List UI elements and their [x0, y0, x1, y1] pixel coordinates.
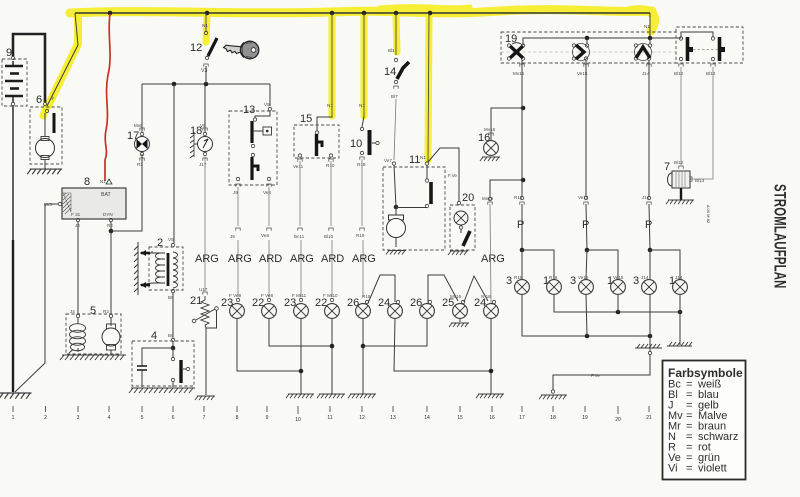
svg-text:Bl10: Bl10	[324, 234, 334, 239]
svg-text:F Mr10: F Mr10	[323, 293, 338, 298]
node: bus junction x=396	[394, 11, 399, 16]
battery 9	[2, 47, 27, 106]
svg-text:Mv16: Mv16	[482, 196, 494, 201]
tail lamp 22b	[315, 293, 339, 318]
svg-text:BAT: BAT	[101, 192, 112, 198]
wire: rail right end down to headlamp switch 13	[269, 84, 271, 106]
ground: 3-lamps	[635, 344, 662, 348]
svg-text:V5: V5	[168, 237, 174, 242]
svg-text:A 05 M 82: A 05 M 82	[706, 205, 711, 224]
svg-text:1: 1	[12, 415, 15, 421]
headlamp 24a	[378, 297, 402, 318]
svg-text:18: 18	[550, 415, 556, 421]
ground: bar under 4	[129, 388, 195, 393]
svg-text:ARG: ARG	[481, 253, 505, 265]
svg-text:N1: N1	[644, 24, 650, 29]
ground: under 20	[448, 251, 468, 255]
node: bus junction x=430	[428, 11, 433, 16]
wire: Mv16 branch from Mv15 wire down to 24b	[490, 180, 523, 197]
node: bus junction x=364	[362, 11, 367, 16]
node: Mv15 split	[520, 248, 525, 253]
svg-text:16: 16	[489, 415, 495, 421]
svg-text:6: 6	[172, 415, 175, 421]
starter motor 6	[30, 94, 62, 169]
ground: under 16	[480, 157, 500, 161]
node: 23 ground junction	[299, 369, 304, 374]
flasher relay 7	[664, 160, 705, 200]
svg-text:R18: R18	[356, 233, 365, 238]
ground: horn 11	[386, 251, 406, 255]
svg-text:Ve11: Ve11	[293, 164, 304, 169]
wire: N1 drop to ignition switch 12	[205, 13, 207, 32]
node: Ve15 split	[585, 248, 590, 253]
svg-text:3: 3	[506, 275, 512, 287]
svg-text:J9: J9	[233, 190, 238, 195]
svg-text:J14: J14	[642, 195, 650, 200]
ground: F.Ve	[539, 395, 567, 399]
wire: 25 bottom to own ground	[459, 319, 461, 323]
node: rail junction x=174	[172, 82, 177, 87]
wire: J14 down to lamp 3-J14	[649, 250, 651, 279]
wire: branch to lamp 1-J14	[650, 250, 680, 279]
indicator lamp 3 Ve15	[570, 275, 593, 294]
wire: V5 feed for 18 from rail	[204, 84, 206, 132]
svg-text:Bl12: Bl12	[674, 71, 684, 76]
svg-text:STROMLAUFPLAN: STROMLAUFPLAN	[771, 184, 790, 289]
wire: N1 drop to horn 11	[428, 13, 429, 162]
svg-text:Bl7: Bl7	[391, 94, 398, 99]
svg-text:17: 17	[519, 415, 525, 421]
svg-text:Bl13: Bl13	[706, 71, 716, 76]
svg-text:21: 21	[646, 415, 652, 421]
svg-text:21: 21	[190, 295, 202, 307]
wire: main bus N1	[75, 12, 650, 14]
svg-text:Mv16: Mv16	[484, 127, 496, 132]
ignition coil 2	[134, 237, 183, 300]
indicator lamp 1 Ve15	[607, 275, 625, 294]
flasher switch contact J14	[634, 44, 651, 77]
svg-text:J9: J9	[230, 234, 235, 239]
wire: R2 branch to charge lamp 17	[111, 154, 142, 231]
indicator lamp 1 J14	[669, 275, 687, 294]
svg-text:9: 9	[266, 415, 269, 421]
ground: 1-lamps	[667, 342, 692, 346]
horn button 10	[350, 103, 379, 167]
svg-text:U17: U17	[199, 287, 208, 292]
node: rail junction x=206	[204, 82, 209, 87]
wire: bus right end into flasher unit 19	[649, 13, 651, 38]
svg-text:Mv15: Mv15	[513, 71, 525, 76]
svg-text:P: P	[645, 219, 652, 231]
svg-text:3: 3	[570, 275, 576, 287]
wire: Mv15 down to lamp 3-R16	[521, 250, 523, 279]
svg-text:12: 12	[190, 42, 202, 54]
wire: Mv5 feed for lamp 17 from rail	[141, 84, 143, 132]
ground: battery negative	[0, 393, 32, 399]
wire: N1 drop to horn button 10	[363, 13, 365, 116]
svg-text:2: 2	[44, 415, 47, 421]
node: bus junction x=332	[330, 11, 335, 16]
svg-text:N1: N1	[420, 155, 426, 160]
svg-text:4: 4	[108, 415, 111, 421]
svg-text:R16: R16	[514, 195, 523, 200]
svg-text:Bl13: Bl13	[695, 178, 705, 183]
ground: under 21	[195, 396, 215, 400]
svg-text:ARG: ARG	[352, 253, 376, 265]
svg-text:14: 14	[384, 66, 396, 78]
svg-text:13: 13	[243, 104, 255, 116]
svg-text:R18: R18	[357, 162, 366, 167]
wire: Mv15 output down the page	[521, 60, 523, 196]
svg-text:P: P	[517, 219, 524, 231]
svg-text:Ve8: Ve8	[263, 190, 271, 195]
wire: V3 from switch 12 to rail	[205, 66, 207, 84]
wire: J4 regulator to generator field 5	[77, 222, 79, 314]
wire: 1-lamps common return	[554, 295, 680, 313]
indicator lamp 3 R16	[506, 275, 529, 294]
svg-text:F.Ve: F.Ve	[448, 173, 457, 178]
wire: 22b bottom to ground	[331, 319, 333, 395]
ground: starter 6	[27, 169, 62, 174]
wire: Mr3 lead from regulator to ground	[15, 204, 58, 392]
svg-text:13: 13	[390, 415, 396, 421]
wire: Bl12 down to flasher relay 7	[680, 67, 682, 165]
svg-text:ARD: ARD	[259, 253, 282, 265]
wire: red lead from bus to regulator BAT terminal	[105, 14, 110, 181]
svg-text:Bc11: Bc11	[294, 234, 305, 239]
svg-text:10: 10	[350, 138, 362, 150]
svg-text:ARG: ARG	[195, 253, 219, 265]
node: 24 ground junction	[489, 369, 494, 374]
wire: lamp 16 feed from Mv15 wire	[491, 108, 523, 140]
front lamp 26b	[410, 297, 434, 318]
headlamp 24b	[474, 294, 498, 318]
svg-text:F Mr11: F Mr11	[292, 293, 307, 298]
turn signal flasher unit 19	[501, 27, 743, 63]
svg-text:Mv16: Mv16	[450, 294, 462, 299]
wire: bridge 25 top to 24b top	[464, 276, 488, 302]
svg-text:4: 4	[151, 330, 157, 342]
ground: lamp 26a	[348, 394, 376, 398]
svg-text:ARG: ARG	[228, 253, 252, 265]
connector: Ve8	[267, 228, 271, 231]
pilot lamp 16	[478, 127, 498, 155]
yellow highlighter over main supply bus N1	[43, 7, 655, 160]
parking light switch 20	[450, 192, 475, 250]
wire: Bl1 drop to dip switch 14	[395, 13, 397, 55]
wire: V5 rail down to ignition coil 2	[173, 84, 175, 243]
wire: bridge 26b top to 25 top	[428, 275, 458, 303]
wire: R10/Bl10 from 15 to lamp row	[330, 161, 332, 226]
ground: long bar under 5	[60, 355, 126, 360]
wire: 26a bottom to ground and to 26b	[362, 319, 364, 395]
terminal number strip	[13, 406, 649, 414]
node: junction on Mv15 wire	[521, 106, 526, 111]
wire: battery positive thick lead to starter 6	[13, 34, 45, 102]
wire: Ve8 from 13 to lamp row	[268, 187, 270, 226]
svg-text:V5: V5	[264, 102, 270, 107]
wire: Bl13 down and left to relay 7	[690, 67, 713, 179]
ground: lamp 25	[449, 323, 469, 327]
wire: Ve15 down to lamp 3-Ve15	[586, 250, 587, 279]
svg-text:11: 11	[409, 154, 420, 166]
lighting switch 13	[229, 102, 277, 195]
svg-text:Vi: Vi	[668, 463, 678, 475]
svg-text:N1: N1	[202, 23, 208, 28]
svg-text:P: P	[582, 219, 589, 231]
svg-text:8: 8	[84, 176, 90, 188]
svg-text:R2: R2	[137, 162, 143, 167]
svg-text:Bl1: Bl1	[388, 48, 395, 53]
svg-text:F Ve8: F Ve8	[261, 293, 273, 298]
tail lamp 23b	[284, 293, 308, 318]
svg-text:DYN: DYN	[103, 212, 113, 217]
wire: 22a bottom to shared ground	[269, 319, 332, 347]
svg-text:19: 19	[505, 33, 517, 45]
headlamp 25	[442, 294, 467, 318]
wire: 24a bottom across to 24b	[394, 319, 491, 372]
wire: F.Ve return lead to frame	[553, 355, 650, 391]
connector: J9	[236, 228, 240, 231]
indicator lamp 3 J14	[633, 275, 656, 294]
svg-text:26: 26	[347, 297, 359, 309]
svg-text:7: 7	[203, 415, 206, 421]
wire: 24b bottom to ground	[490, 319, 492, 395]
svg-text:3: 3	[633, 275, 639, 287]
svg-text:N1: N1	[100, 179, 106, 184]
svg-text:R2: R2	[103, 309, 109, 314]
node: bus junction x=207	[205, 11, 210, 16]
svg-text:15: 15	[457, 415, 463, 421]
svg-text:N 16: N 16	[481, 294, 491, 299]
svg-text:6: 6	[36, 94, 42, 106]
dip switch 14	[384, 48, 409, 99]
wire: bus left end down to starter switch 6	[47, 13, 78, 106]
wire: 23a bottom to shared ground	[237, 319, 301, 372]
svg-text:F 31: F 31	[71, 212, 81, 217]
svg-text:20: 20	[615, 417, 621, 423]
node: 22 ground junction	[330, 344, 335, 349]
legend box Farbsymbole	[663, 361, 746, 480]
wire: R18 from 10 to lamp row	[361, 159, 363, 226]
svg-text:20: 20	[462, 192, 474, 204]
field coil and dynamo 5	[66, 305, 121, 354]
charge indicator lamp 17	[127, 123, 150, 167]
wire: F.Ve lead from horn N1 to parking switch 20	[428, 148, 459, 201]
wire: bridge 26a top to 24a top	[368, 275, 395, 303]
svg-text:B6: B6	[168, 333, 174, 338]
svg-text:12: 12	[359, 415, 365, 421]
svg-text:J17: J17	[199, 162, 207, 167]
wire: battery negative lead down to ground	[12, 106, 14, 240]
tail lamp 23a	[221, 293, 244, 318]
svg-text:23: 23	[221, 297, 233, 309]
flasher switch contact Ve15	[572, 44, 589, 77]
flasher switch contact Mv15	[507, 43, 524, 76]
ground: lamp 24b	[476, 394, 504, 398]
svg-text:F.Ve: F.Ve	[591, 373, 600, 378]
svg-text:5: 5	[141, 415, 144, 421]
svg-text:Ve8: Ve8	[261, 233, 269, 238]
svg-text:N1: N1	[359, 103, 365, 108]
wire: J9 from 13 to lamp row	[237, 187, 239, 226]
wire: V5 distribution rail	[142, 83, 270, 85]
wire: J17 from 18 down to rheostat 21	[204, 156, 206, 291]
wire: 23b bottom to ground	[300, 319, 302, 395]
svg-text:J4: J4	[70, 309, 75, 314]
wire: branch to lamp 1-R16	[522, 250, 554, 279]
wire: Ve15 output down the page	[585, 60, 587, 196]
ground: lamps 23	[286, 394, 314, 398]
svg-text:=: =	[686, 463, 692, 475]
wire: Ve11/Bc11 from 15 to lamp row	[299, 161, 301, 226]
indicator lamp 1 R16	[543, 275, 561, 294]
svg-text:R2: R2	[107, 223, 113, 228]
svg-text:3: 3	[77, 415, 80, 421]
wire: Bl7 from 14 down to horn 11	[394, 99, 396, 160]
wire: N1 drop to stop switch 15	[331, 13, 333, 116]
svg-text:5: 5	[90, 305, 96, 317]
svg-text:10: 10	[295, 417, 301, 423]
svg-text:N1: N1	[327, 103, 333, 108]
svg-text:Ve7: Ve7	[384, 158, 392, 163]
speedometer clock 18	[190, 123, 213, 167]
svg-text:F Ve9: F Ve9	[229, 293, 241, 298]
ignition key icon	[224, 41, 259, 59]
horn 11	[383, 154, 445, 250]
svg-text:ARG: ARG	[290, 253, 314, 265]
svg-text:7: 7	[664, 161, 670, 173]
ignition switch 12	[190, 23, 217, 74]
node: bus junction x=110	[108, 11, 113, 16]
wire: B6 coil to breaker 4	[172, 293, 174, 338]
front lamp 26a	[347, 294, 371, 318]
capacitor contact Bl13	[693, 37, 725, 76]
node: R2 junction	[109, 229, 114, 234]
svg-text:15: 15	[300, 113, 312, 125]
tail lamp 22a	[252, 293, 276, 318]
wire: R2 regulator to dynamo 5	[110, 222, 112, 314]
wire: J14 output down the page	[648, 60, 650, 196]
regulator 8	[44, 176, 126, 228]
instrument light rheostat 21	[190, 287, 218, 395]
svg-text:Bl12: Bl12	[674, 160, 684, 165]
wire: branch to lamp 1-Ve15	[587, 250, 618, 279]
contact breaker with condenser 4	[132, 330, 194, 387]
svg-text:Ve15: Ve15	[578, 195, 589, 200]
svg-text:8: 8	[236, 415, 239, 421]
capacitor contact Bl12	[674, 32, 715, 76]
wire: 3-lamps common return	[522, 295, 650, 337]
svg-text:violett: violett	[698, 463, 727, 475]
wire: internal feed rail of 19	[523, 38, 681, 45]
ground: under relay 7	[666, 200, 694, 204]
svg-text:19: 19	[582, 415, 588, 421]
svg-text:ARD: ARD	[321, 253, 344, 265]
svg-text:R10: R10	[326, 163, 335, 168]
svg-text:11: 11	[327, 415, 332, 421]
stop light switch 15	[293, 103, 339, 169]
ground: lamps 22	[317, 394, 345, 398]
svg-text:14: 14	[424, 415, 430, 421]
node: J14 split	[648, 248, 653, 253]
